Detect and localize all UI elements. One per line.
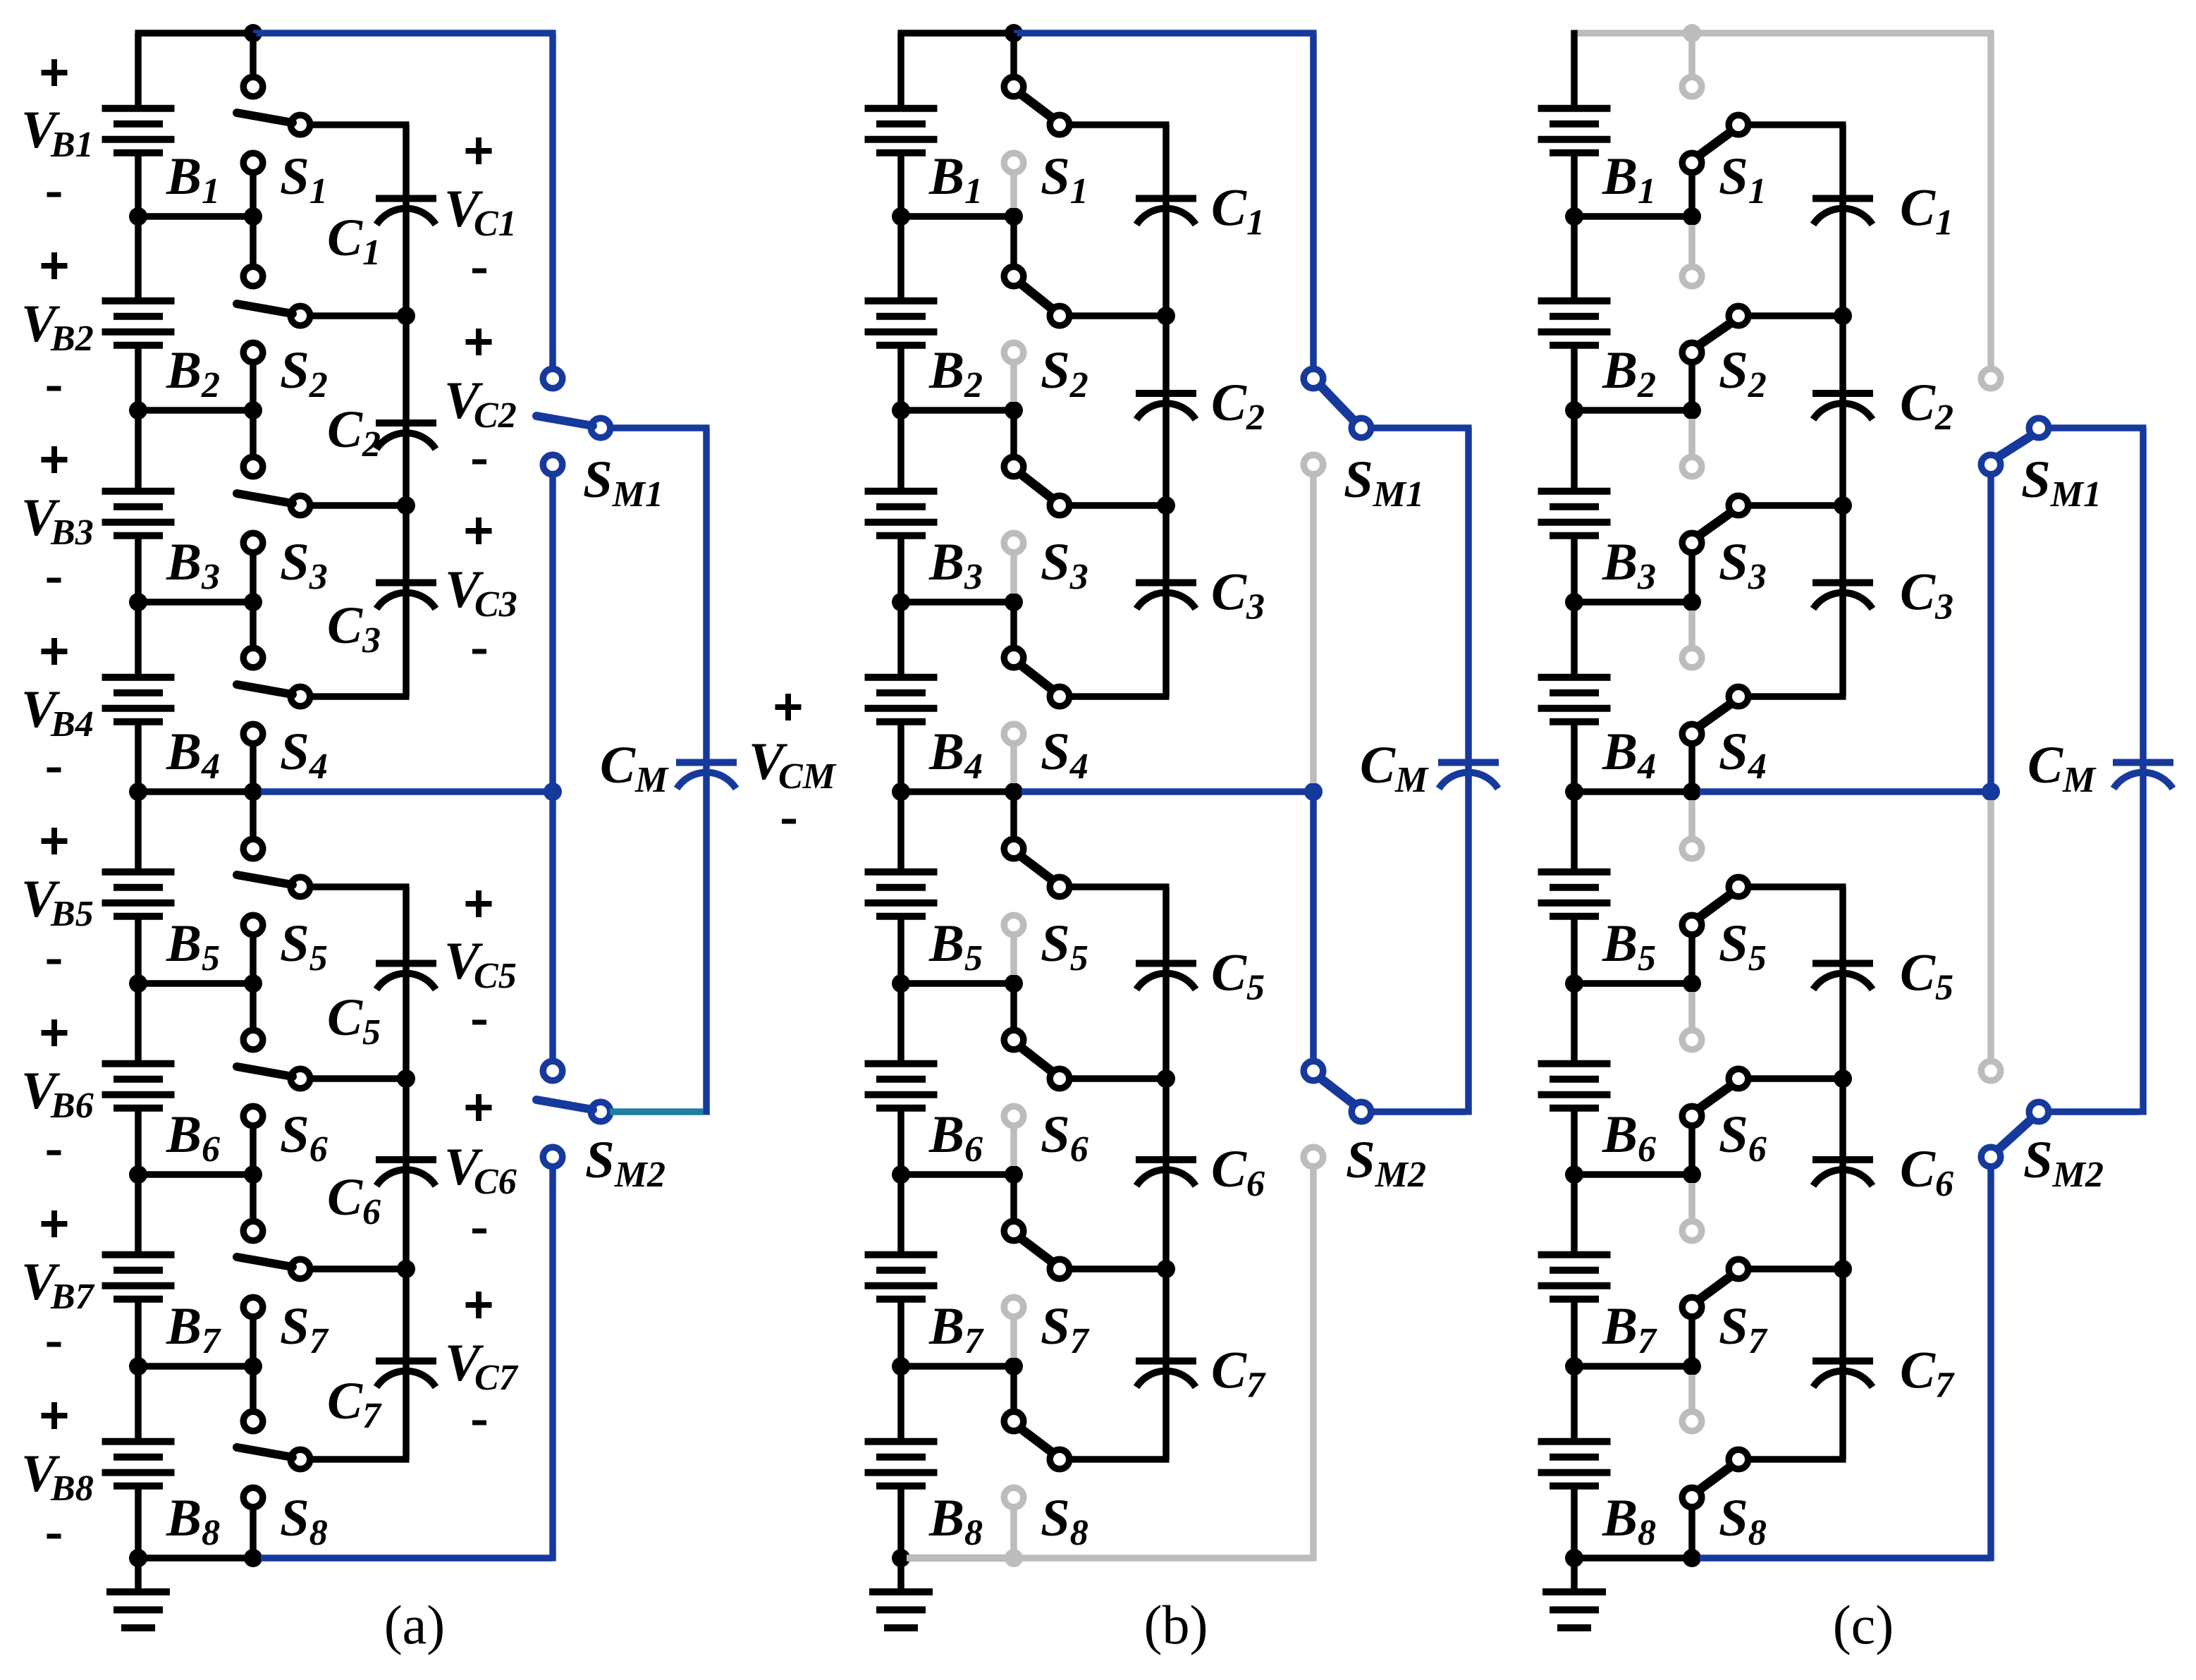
node: bus junction at S2 row (b) [1157, 307, 1175, 325]
wire: node row 2 (a) [138, 407, 253, 414]
node: switch-stub junction row 7 (c) [1683, 1357, 1701, 1375]
battery B8 (c) [1538, 1442, 1611, 1486]
node: switch-stub junction row 5 (b) [1005, 974, 1023, 993]
wire: SM1 lower throw to mid node (c) [1987, 477, 1994, 792]
wire: battery B5 leads (a) [135, 792, 142, 983]
battery B1 (a) [102, 109, 175, 153]
wire: SM2 common to CM bottom (c) [2048, 1108, 2140, 1115]
capacitor C5 (a) [376, 964, 436, 990]
wire: battery B1 leads (a) [135, 157, 142, 217]
switch S5 (b) [1004, 792, 1169, 975]
node: switch-stub junction row 1 (a) [244, 207, 262, 226]
plus sign VC2 (a) [466, 329, 492, 355]
wire: mid node to SM2 upper throw (a) [549, 792, 556, 1059]
node: battery junction row 5 (c) [1565, 974, 1583, 993]
wire: battery B6 leads (a) [135, 983, 142, 1175]
battery B7 (a) [102, 1255, 175, 1299]
node: switch-stub junction row 6 (c) [1683, 1165, 1701, 1184]
node: battery junction row 4 (c) [1565, 783, 1583, 801]
plus sign VB2 (a) [42, 252, 68, 279]
wire: node row 1 (c) [1574, 213, 1692, 220]
node: battery junction row 5 (b) [892, 974, 910, 993]
battery B4 (a) [102, 677, 175, 722]
wire: CM bottom lead (a) [703, 766, 710, 1115]
node: bus junction at S3 row (a) [397, 496, 415, 515]
battery B1 (c) [1538, 109, 1611, 153]
node: battery junction row 7 (c) [1565, 1357, 1583, 1375]
battery B6 (b) [865, 1064, 938, 1108]
wire: node row 6 (c) [1574, 1171, 1692, 1178]
capacitor C7 (b) [1136, 1361, 1196, 1387]
battery B3 (b) [865, 491, 938, 536]
minus sign VB4 (a) [47, 768, 61, 773]
switch S7 (b) [1004, 1175, 1169, 1358]
node: switch-stub junction row 8 (b) [1005, 1549, 1023, 1567]
wire: node row 8 (c) [1574, 1555, 1692, 1562]
minus sign VB1 (a) [47, 192, 61, 197]
switch S6 (c) [1682, 992, 1846, 1175]
switch S2 (b) [1004, 216, 1169, 402]
wire: upper capacitor bus (b) [1163, 125, 1170, 697]
node: battery junction row 3 (c) [1565, 593, 1583, 611]
switch S4 (c) [1682, 611, 1846, 792]
node: battery junction row 1 (b) [892, 207, 910, 226]
svg-text:(c): (c) [1833, 1594, 1894, 1655]
switch SM2 (c) [1981, 1061, 2049, 1167]
switch SM2 (b) [1304, 1061, 1371, 1167]
switch S4 (b) [1004, 602, 1169, 783]
node: switch-stub junction row 7 (b) [1005, 1357, 1023, 1375]
node: battery junction row 7 (a) [129, 1357, 147, 1375]
wire: battery B8 leads (c) [1571, 1366, 1578, 1558]
wire: SM1 common to CM top (b) [1370, 428, 1472, 760]
wire: battery B2 leads (a) [135, 216, 142, 410]
plus sign VC6 (a) [466, 1094, 492, 1121]
node: battery junction row 7 (b) [892, 1357, 910, 1375]
node: bus junction at S7 row (a) [397, 1260, 415, 1278]
node: mid junction at SM vertical (c) [1982, 783, 2000, 801]
node: bus junction at S2 row (c) [1834, 307, 1852, 325]
node: top of pack at S1 stub (c) [1683, 24, 1701, 42]
switch S3 (a) [237, 410, 410, 602]
wire: SM2 common to CM bottom (b) [1370, 1108, 1466, 1115]
wire: top node to SM1 upper throw, unused grey (c) [1577, 33, 1994, 367]
capacitor C7 (a) [376, 1361, 436, 1387]
battery B5 (a) [102, 872, 175, 916]
svg-text:(b): (b) [1144, 1594, 1208, 1655]
plus sign VB4 (a) [42, 638, 68, 665]
switch S7 (c) [1682, 1183, 1846, 1366]
wire: battery B3 leads (a) [135, 410, 142, 602]
battery B3 (c) [1538, 491, 1611, 536]
node: switch-stub junction row 1 (b) [1005, 207, 1023, 226]
wire: node row 4 (b) [901, 788, 1014, 795]
node: switch-stub junction row 8 (c) [1683, 1549, 1701, 1567]
node: battery junction row 6 (c) [1565, 1165, 1583, 1184]
battery B7 (b) [865, 1255, 938, 1299]
battery B2 (c) [1538, 301, 1611, 345]
wire: mid node to SM vertical (blue) (c) [1700, 788, 1991, 795]
wire: lower capacitor bus (c) [1839, 887, 1846, 1459]
wire: battery B4 leads (c) [1571, 602, 1578, 792]
wire: node row 5 (a) [138, 980, 253, 987]
wire: SM1 lower throw to mid node (b) [1310, 477, 1317, 783]
minus sign VB2 (a) [47, 386, 61, 391]
minus sign VB6 (a) [47, 1151, 61, 1155]
wire: SM2 lower throw to bottom row (blue) (a) [261, 1169, 553, 1562]
node: bus junction at S3 row (b) [1157, 496, 1175, 515]
switch S8 (c) [1682, 1375, 1846, 1558]
wire: mid node to SM2 upper throw (b) [1310, 792, 1317, 1059]
node: battery junction row 2 (b) [892, 401, 910, 419]
switch SM1 (c) [1981, 369, 2049, 474]
battery B8 (b) [865, 1442, 938, 1486]
wire: battery top lead (c) [1571, 30, 1578, 106]
capacitor C6 (b) [1136, 1160, 1196, 1186]
node: bus junction at S7 row (b) [1157, 1260, 1175, 1278]
node: switch-stub junction row 7 (a) [244, 1357, 262, 1375]
wire: node row 2 (c) [1574, 407, 1692, 414]
minus sign VB3 (a) [47, 578, 61, 583]
switch S4 (a) [237, 602, 410, 792]
minus sign VC2 (a) [472, 460, 486, 465]
capacitor C6 (a) [376, 1160, 436, 1186]
ground ((a)) [106, 1558, 170, 1628]
capacitor C3 (a) [376, 583, 436, 609]
wire: SM2 common to CM bottom (a) [610, 1108, 704, 1115]
minus sign VC5 (a) [472, 1020, 486, 1025]
wire: node row 6 (a) [138, 1171, 253, 1178]
wire: battery B8 leads (a) [135, 1366, 142, 1558]
wire: node row 8 (b) [901, 1555, 1014, 1562]
wire: SM2 lower throw to bottom row (blue) (c) [1700, 1169, 1991, 1562]
wire: battery B1 leads (b) [897, 157, 904, 217]
minus sign VC1 (a) [472, 269, 486, 274]
battery B3 (a) [102, 491, 175, 536]
wire: node row 5 (b) [901, 980, 1014, 987]
capacitor C7 (c) [1812, 1361, 1873, 1387]
switch S6 (a) [237, 983, 410, 1175]
plus sign VB1 (a) [42, 59, 68, 86]
capacitor C2 (c) [1812, 393, 1873, 419]
minus sign VCM (a) [782, 819, 796, 824]
wire: SM1 lower throw to mid node (a) [549, 477, 556, 792]
plus sign VC1 (a) [466, 137, 492, 164]
node: switch-stub junction row 5 (a) [244, 974, 262, 993]
node: battery junction row 4 (a) [129, 783, 147, 801]
wire: node row 2 (b) [901, 407, 1014, 414]
wire: battery B4 leads (b) [897, 602, 904, 792]
node: switch-stub junction row 6 (a) [244, 1165, 262, 1184]
node: switch-stub junction row 4 (b) [1005, 783, 1023, 801]
switch S1 (b) [1004, 33, 1169, 208]
plus sign VB8 (a) [42, 1402, 68, 1429]
wire: lower capacitor bus (a) [403, 887, 410, 1459]
minus sign VB8 (a) [47, 1534, 61, 1539]
node: battery junction row 8 (a) [129, 1549, 147, 1567]
minus sign VB7 (a) [47, 1342, 61, 1347]
wire: lower capacitor bus (b) [1163, 887, 1170, 1459]
wire: node row 4 (a) [138, 788, 253, 795]
wire: node row 3 (c) [1574, 599, 1692, 606]
ground ((b)) [869, 1558, 933, 1628]
node: switch-stub junction row 1 (c) [1683, 207, 1701, 226]
battery B4 (b) [865, 677, 938, 722]
node: switch-stub junction row 5 (c) [1683, 974, 1701, 993]
wire: battery B7 leads (c) [1571, 1175, 1578, 1366]
node: battery junction row 1 (c) [1565, 207, 1583, 226]
minus sign VC6 (a) [472, 1229, 486, 1234]
battery B6 (a) [102, 1064, 175, 1108]
node: bus junction at S2 row (a) [397, 307, 415, 325]
battery B8 (a) [102, 1442, 175, 1486]
wire: top node to SM1 upper throw (blue) (b) [1014, 33, 1317, 367]
ground ((c)) [1542, 1558, 1606, 1628]
node: switch-stub junction row 4 (a) [244, 783, 262, 801]
node: battery junction row 1 (a) [129, 207, 147, 226]
node: mid junction at SM vertical (a) [544, 783, 562, 801]
node: switch-stub junction row 8 (a) [244, 1549, 262, 1567]
wire: pack top lead (a) [135, 33, 254, 105]
wire: node row 1 (a) [138, 213, 253, 220]
wire: node row 8 (a) [138, 1555, 253, 1562]
wire: battery B7 leads (b) [897, 1175, 904, 1366]
wire: battery B2 leads (b) [897, 216, 904, 410]
capacitor C1 (a) [376, 199, 436, 225]
minus sign VC7 (a) [472, 1421, 486, 1425]
node: switch-stub junction row 3 (a) [244, 593, 262, 611]
plus sign VC3 (a) [466, 517, 492, 544]
capacitor CM (a) [676, 763, 737, 789]
wire: battery B7 leads (a) [135, 1175, 142, 1366]
battery B2 (a) [102, 301, 175, 345]
switch S2 (c) [1682, 225, 1846, 410]
node: battery junction row 3 (b) [892, 593, 910, 611]
node: bus junction at S6 row (b) [1157, 1069, 1175, 1088]
wire: mid node to SM vertical (blue) (a) [261, 788, 553, 795]
wire: battery B3 leads (c) [1571, 410, 1578, 602]
wire: upper capacitor bus (a) [403, 125, 410, 697]
wire: battery B6 leads (c) [1571, 983, 1578, 1175]
capacitor C2 (a) [376, 423, 436, 449]
capacitor C5 (c) [1812, 964, 1873, 990]
battery B6 (c) [1538, 1064, 1611, 1108]
node: bus junction at S6 row (c) [1834, 1069, 1852, 1088]
svg-text:(a): (a) [384, 1594, 446, 1655]
switch S7 (a) [237, 1175, 410, 1366]
node: battery junction row 6 (a) [129, 1165, 147, 1184]
wire: battery B1 leads (c) [1571, 157, 1578, 217]
switch S3 (b) [1004, 410, 1169, 594]
wire: node row 5 (c) [1574, 980, 1692, 987]
node: battery junction row 4 (b) [892, 783, 910, 801]
wire: node row 4 (c) [1574, 788, 1692, 795]
wire: battery B5 leads (c) [1571, 792, 1578, 983]
wire: upper capacitor bus (c) [1839, 125, 1846, 697]
capacitor C3 (c) [1812, 583, 1873, 609]
switch S1 (a) [237, 33, 410, 216]
switch S8 (b) [1004, 1366, 1169, 1558]
wire: battery B2 leads (c) [1571, 216, 1578, 410]
wire: node row 3 (a) [138, 599, 253, 606]
switch S6 (b) [1004, 983, 1169, 1166]
node: switch-stub junction row 6 (b) [1005, 1165, 1023, 1184]
switch S5 (c) [1682, 800, 1846, 983]
wire: pack top lead (b) [898, 33, 1014, 105]
wire: CM bottom lead (c) [2140, 766, 2147, 1115]
plus sign VCM (a) [775, 694, 802, 721]
switch S2 (a) [237, 216, 410, 410]
switch SM2 (a) [536, 1061, 611, 1167]
wire: CM bottom lead (b) [1465, 766, 1472, 1115]
capacitor C6 (c) [1812, 1160, 1873, 1186]
plus sign VC7 (a) [466, 1292, 492, 1318]
node: bus junction at S6 row (a) [397, 1069, 415, 1088]
switch S5 (a) [237, 792, 410, 983]
battery B5 (c) [1538, 872, 1611, 916]
wire: battery B6 leads (b) [897, 983, 904, 1175]
wire: node row 3 (b) [901, 599, 1014, 606]
node: battery junction row 8 (c) [1565, 1549, 1583, 1567]
capacitor C2 (b) [1136, 393, 1196, 419]
wire: battery B8 leads (b) [897, 1366, 904, 1558]
node: battery junction row 3 (a) [129, 593, 147, 611]
wire: SM2 lower throw to bottom row, unused grey (b) [907, 1169, 1313, 1562]
capacitor C3 (b) [1136, 583, 1196, 609]
wire: SM1 common to CM top (a) [610, 428, 710, 760]
node: battery junction row 5 (a) [129, 974, 147, 993]
switch SM1 (b) [1304, 369, 1371, 474]
wire: mid node to SM2 upper throw (c) [1987, 800, 1994, 1059]
wire: mid node to SM vertical (blue) (b) [1022, 788, 1313, 795]
switch S1 (c) [1682, 33, 1846, 216]
switch S3 (c) [1682, 419, 1846, 602]
wire: node row 1 (b) [901, 213, 1014, 220]
node: battery junction row 2 (a) [129, 401, 147, 419]
node: battery junction row 6 (b) [892, 1165, 910, 1184]
node: bus junction at S7 row (c) [1834, 1260, 1852, 1278]
plus sign VC5 (a) [466, 890, 492, 917]
capacitor CM (b) [1438, 763, 1499, 789]
node: top of pack (b) [1005, 24, 1023, 42]
node: switch-stub junction row 4 (c) [1683, 783, 1701, 801]
plus sign VB7 (a) [42, 1210, 68, 1237]
battery B1 (b) [865, 109, 938, 153]
plus sign VB5 (a) [42, 828, 68, 854]
battery B5 (b) [865, 872, 938, 916]
plus sign VB3 (a) [42, 446, 68, 473]
wire: node row 7 (c) [1574, 1363, 1692, 1370]
wire: battery B5 leads (b) [897, 792, 904, 983]
node: switch-stub junction row 2 (c) [1683, 401, 1701, 419]
wire: node row 7 (a) [138, 1363, 253, 1370]
minus sign VC3 (a) [472, 649, 486, 654]
battery B4 (c) [1538, 677, 1611, 722]
capacitor CM (c) [2113, 763, 2173, 789]
node: switch-stub junction row 3 (c) [1683, 593, 1701, 611]
wire: node row 6 (b) [901, 1171, 1014, 1178]
node: switch-stub junction row 3 (b) [1005, 593, 1023, 611]
capacitor C1 (c) [1812, 199, 1873, 225]
wire: node row 7 (b) [901, 1363, 1014, 1370]
node: top of pack (a) [244, 24, 262, 42]
minus sign VB5 (a) [47, 959, 61, 964]
node: switch-stub junction row 2 (b) [1005, 401, 1023, 419]
node: mid junction at SM vertical (b) [1304, 783, 1323, 801]
switch S8 (a) [237, 1366, 410, 1558]
battery B7 (c) [1538, 1255, 1611, 1299]
battery B2 (b) [865, 301, 938, 345]
node: battery junction row 8 (b) [892, 1549, 910, 1567]
node: bus junction at S3 row (c) [1834, 496, 1852, 515]
switch SM1 (a) [536, 369, 611, 474]
wire: top node to SM1 upper throw (blue) (a) [253, 33, 556, 367]
wire: battery B3 leads (b) [897, 410, 904, 602]
node: switch-stub junction row 2 (a) [244, 401, 262, 419]
capacitor C5 (b) [1136, 964, 1196, 990]
wire: battery B4 leads (a) [135, 602, 142, 792]
node: battery junction row 2 (c) [1565, 401, 1583, 419]
capacitor C1 (b) [1136, 199, 1196, 225]
wire: SM1 common to CM top (c) [2048, 428, 2147, 760]
plus sign VB6 (a) [42, 1019, 68, 1046]
